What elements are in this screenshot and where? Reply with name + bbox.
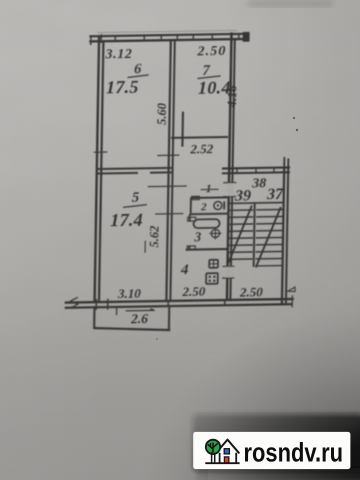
staircase: middle stringer [254,203,255,267]
stove square with burner dots [206,273,218,284]
bathtub [194,219,220,228]
staircase: left flight diagonal [228,206,251,263]
balcony outline [94,306,171,332]
staircase: left flight steps [228,210,253,259]
svg-text:rosndv.ru: rosndv.ru [244,437,344,467]
wall: staircase right exterior (double) [282,167,288,305]
underline of room label 5 [123,205,147,208]
dirt specks [156,117,298,340]
logo house [216,440,239,463]
watermark dark backdrop [193,414,360,472]
bathroom bottom wall [186,248,228,251]
dimension tick crossing middle wall at hall [155,213,183,215]
cut mark at left end of bottom wall [71,297,78,308]
logo tree [206,440,220,463]
door jamb ticks at entrance opening [223,182,236,184]
door label 1 dash [201,188,219,190]
handwritten dimension texts [100,43,287,327]
underline of room label 7 [198,76,221,79]
wall: left exterior double line [95,36,104,303]
staircase: top edge line [228,201,283,204]
underline of room label 6 [128,75,149,78]
wall: right of apartment, vertical [227,32,235,300]
balcony dimension arrow over 2.6 [126,309,155,311]
kitchen sink square with cross [209,260,218,268]
wall: middle vertical (rooms 6/5 vs 7/hall) [166,40,174,301]
staircase: right flight steps [255,210,282,266]
end tick at right end [291,295,293,307]
dimension tick below room5 top wall [148,185,187,188]
wall: top exterior double line with hatch ticks [89,30,250,45]
wall: between rooms 6 and 5 (double) [97,168,173,174]
faint cut-off text smudge at top right [248,0,333,7]
door opening lower gap in right wall [225,267,232,278]
washbasin circle with cross [209,227,221,239]
wall: bottom exterior double line [65,294,294,311]
staircase: right flight diagonal [256,207,281,267]
watermark white plate [193,432,350,469]
door jamb ticks at lower opening [222,266,234,278]
door opening (entrance) gap in right wall [227,183,234,196]
toilet bowl [214,201,222,209]
bathroom left wall with door jambs [187,214,196,250]
wall: bottom of room 7 with door leaf [171,111,229,147]
dimension tick on middle wall upper [157,154,179,156]
small pen tick in room 5 [144,241,146,253]
watermark corner shading [140,290,360,480]
wall: staircase block top (double) [222,167,290,173]
toilet room walls [190,196,228,214]
wall nub above staircase wall [284,157,288,168]
paper mottle [0,0,1,1]
paper grain [0,0,1,1]
floor plan drawing (skewed slightly like the photo) [64,29,299,332]
ground line [205,462,239,464]
dimension tick on left wall [94,151,108,153]
dimension tick right of staircase wall [288,287,295,292]
